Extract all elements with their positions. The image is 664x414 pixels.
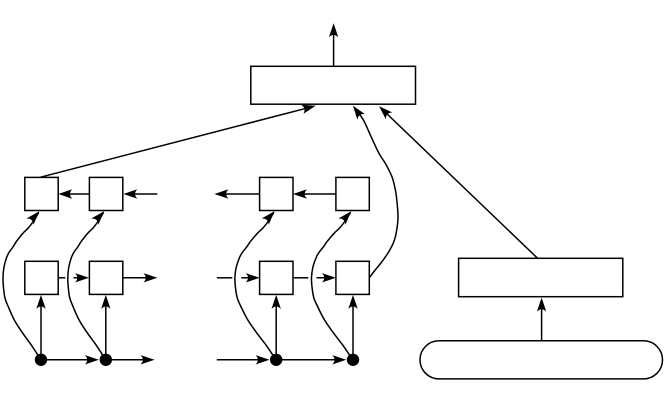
box: output layer (right column) (459, 258, 623, 296)
arrow: h4 to h3 (293, 189, 336, 198)
arrow: x3 up to g3 (272, 295, 281, 360)
curve: x3 up to h3 (235, 208, 278, 360)
output arrow (top) (329, 23, 338, 66)
arrow: g2 output to right (123, 273, 157, 282)
arrow: x2 output to right (106, 355, 155, 364)
arrow: x2 up to g2 (101, 295, 110, 360)
arrow: x1 to x2 (41, 355, 99, 364)
arrow: g1 to g2 (broken by curve) (58, 273, 89, 282)
box: backward cell h4 (top row) (336, 177, 369, 210)
wire: curved, middle group to output box (349, 103, 398, 277)
input node x1 (35, 354, 47, 366)
input node x3 (270, 354, 282, 366)
arrow: g3 to g4 (broken by curve) (294, 273, 336, 282)
box: backward cell h1 (top row) (25, 177, 58, 210)
box: forward cell g2 (middle row) (89, 261, 122, 294)
box: forward cell g1 (middle row) (25, 261, 58, 294)
arrow: into x3 from left (217, 355, 270, 364)
arrow: h2 to h1 (58, 189, 89, 198)
box: forward cell g3 (middle row) (260, 261, 293, 294)
arrow: x4 up to g4 (348, 295, 357, 360)
arrow: into g3 from left (broken by curve) (217, 273, 260, 282)
box: forward cell g4 (middle row) (336, 261, 369, 294)
curve: x2 up to h2 (68, 208, 108, 360)
wire: left group to output box (41, 101, 317, 177)
output box (top) (251, 66, 416, 104)
arrow: h3 output to left (215, 189, 260, 198)
wire: right column to output box (376, 103, 538, 258)
input node x4 (347, 354, 359, 366)
arrow: into h2 from right (123, 189, 157, 198)
arrow: x3 to x4 (276, 355, 346, 364)
arrow: x1 up to g1 (36, 295, 45, 360)
arrow: stadium up to right box (537, 298, 546, 341)
box: backward cell h3 (top row) (260, 177, 293, 210)
stadium: input sequence (420, 341, 663, 379)
curve: x4 up to h4 (311, 208, 354, 360)
box: backward cell h2 (top row) (89, 177, 122, 210)
input node x2 (100, 354, 112, 366)
curve: x1 up to h1 (3, 208, 43, 360)
